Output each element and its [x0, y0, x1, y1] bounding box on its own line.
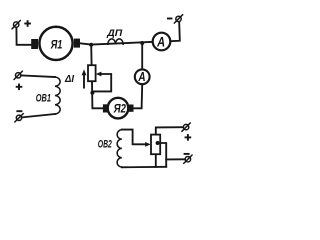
svg-text:ΔI: ΔI [64, 74, 74, 85]
svg-text:Я2: Я2 [113, 102, 126, 116]
svg-text:ОВ2: ОВ2 [98, 138, 112, 150]
svg-text:А: А [156, 33, 165, 49]
svg-text:Я1: Я1 [50, 37, 63, 51]
svg-text:ДП: ДП [106, 28, 122, 39]
svg-text:ОВ1: ОВ1 [36, 93, 51, 105]
svg-text:А: А [138, 69, 146, 84]
